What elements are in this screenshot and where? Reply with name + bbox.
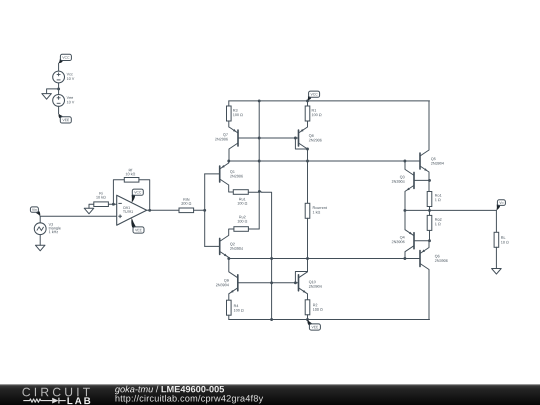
wire output to RL [495,210,497,232]
wire Q7-Q8 base rail [238,137,299,139]
net flag VCC (supply) [59,54,72,63]
resistor R3 100 Ω [227,101,243,127]
node base rail / Q10 tie [294,281,297,284]
node base rail / Q8 tie [294,137,297,140]
resistor Ri 10 kΩ [94,192,109,207]
resistor R4 100 Ω [227,300,244,319]
url text line [116,395,264,404]
resistor RIN 200 Ω [179,198,194,212]
voltage source Vee 10 V [53,95,75,107]
net flag VEE (supply) [59,114,72,123]
ground (supply midpoint) [42,94,52,100]
op-amp OA1 TL081 [117,195,147,225]
wire mid rail jog [259,191,262,193]
wire feedback right [139,180,150,211]
node inverting input junction [112,203,115,206]
wire mirror rail [229,160,420,162]
wire Q8 base-collector tie [295,138,307,149]
resistor Ro1 1 Ω [427,192,441,211]
node lower rail / mid rail [270,257,273,260]
resistor R1 100 Ω [305,101,321,127]
wire RIN to driver bases [194,209,205,211]
wire Vin node down to V3 [39,216,41,223]
CircuitLab logo text CIRCUIT [22,388,89,397]
voltage source Vcc 10 V [53,71,75,83]
bottom brand bar [0,384,540,405]
resistor Ro2 1 Ω [427,210,441,240]
node mirror rail / Q3 collector [403,160,406,163]
wire Q4 base tie [414,240,430,242]
node mid rail / Ru1 junction [258,190,261,193]
node lower rail / Q4 collector [403,257,406,260]
CircuitLab logo symbol (resistor + diode) [23,398,65,404]
node VCC rail / R1 junction [306,99,309,102]
wire Q3 base tie [414,179,430,181]
source V3 triangle 1 kHz [34,223,60,235]
transistor Q9 2N3904 [216,259,238,301]
wire junction to ground [47,89,59,94]
node Q8 collector junction [306,148,309,151]
resistor Rcurrent 1 kΩ [305,161,327,259]
wire ground to Ri [89,204,94,208]
transistor Q5 2N3904 [420,101,444,192]
wire Ri to inverting input [108,203,116,205]
net flag VCC (op-amp) [132,189,144,203]
node VEE rail / mid rail [270,318,273,321]
transistor Q3 2N3904 [392,161,414,210]
resistor R2 100 Ω [305,300,322,320]
node lower rail / Q2-Q9 [227,257,230,260]
transistor Q1 2N2906 [220,161,243,192]
transistor Q2 2N3904 [220,229,243,259]
node driver base junction [203,209,206,212]
transistor Q4 2N3906 [392,210,414,258]
net flag VEE (rail) [307,320,320,331]
wire Q10 base-collector tie [295,272,307,283]
wire feedback left [113,180,124,204]
node output rail / Ro1-Ro2 [428,209,431,212]
wire driver base vertical [204,174,206,247]
node mirror rail / Rcurrent [306,160,309,163]
wire Q8 collector to rail [307,149,309,161]
wire VCC rail [229,100,430,102]
ground (V3) [35,245,45,251]
net flag Vin [30,207,40,216]
wire op-amp output [147,209,179,211]
node base rail / mid rail lower [270,281,273,284]
wire output rail [405,209,497,211]
wire to Q1 base [205,173,220,175]
wire VCC flag to Vcc source [58,63,60,71]
node lower rail / Rcurrent-Q10 [306,257,309,260]
wire to Q2 base [205,245,220,247]
node junction supply midpoint [57,87,60,90]
node Q4 base / Ro2 [428,239,431,242]
node Q5 emitter / Q3 base [428,179,431,182]
node base rail / mid-rail [258,137,261,140]
wire lower bias rail [229,258,420,260]
wire mid rail upper [258,101,260,229]
ground (RL) [492,269,502,275]
node VEE rail / R2 [306,318,309,321]
transistor Q7 2N2906 [215,127,238,161]
wire Q10 collector to rail [307,259,309,272]
wire Vin to op-amp noninverting input [40,215,117,217]
transistor Q8 2N2906 [299,127,322,149]
node mirror rail / mid-rail [258,160,261,163]
wire Q9-Q10 base rail [238,282,299,284]
node output feedback junction [148,209,151,212]
ground (Ri) [84,208,94,214]
node mirror rail / Q7 collector [227,160,230,163]
transistor Q6 2N3906 [420,241,448,320]
wire mid rail lower [262,192,272,319]
net flag VCC (rail) [308,91,320,100]
CircuitLab logo text LAB [67,397,90,404]
resistor Ru1 100 Ω [229,190,260,205]
resistor Rf 10 kΩ [124,169,139,182]
wire VEE rail [229,319,430,321]
net flag VEE (op-amp) [131,218,144,233]
net flag Vo [497,200,506,211]
node output rail left [403,209,406,212]
wire V3 to ground [39,235,41,246]
title: goka-tmu / LME49600-005 [115,386,224,395]
resistor Ru2 100 Ω [229,216,260,232]
node VCC rail / mid-rail junction [258,99,261,102]
wire Vee to VEE flag [58,106,60,113]
transistor Q10 2N3904 [299,272,322,300]
wire Vcc to junction [58,83,60,95]
resistor RL 10 Ω [494,232,509,268]
